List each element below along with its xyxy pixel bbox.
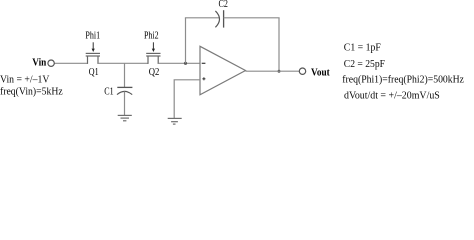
svg-text:C2 = 25pF: C2 = 25pF: [344, 59, 386, 70]
ground below C1: [118, 115, 132, 120]
wire feedback left vertical: [185, 18, 187, 64]
arrow Phi1 to gate of Q1: [92, 42, 94, 49]
transistor Q2: [146, 53, 160, 64]
wire non-inverting input: [174, 80, 200, 119]
terminal Vin circle: [48, 60, 54, 66]
svg-text:C1 = 1pF: C1 = 1pF: [344, 42, 381, 53]
svg-text:freq(Phi1)=freq(Phi2)=500kHz: freq(Phi1)=freq(Phi2)=500kHz: [342, 74, 464, 85]
wire C2 to right: [224, 17, 280, 19]
svg-text:Q1: Q1: [89, 67, 99, 78]
node A junction (feedback / inverting input): [184, 62, 187, 65]
wire Vin to Q1: [54, 62, 87, 64]
svg-text:Vout: Vout: [311, 68, 330, 79]
node B junction (feedback / output): [278, 70, 281, 73]
op-amp minus sign: [202, 62, 206, 64]
wire output: [246, 70, 300, 72]
transistor Q1: [86, 53, 100, 64]
svg-text:Vin: Vin: [32, 57, 46, 68]
svg-text:C1: C1: [104, 87, 113, 98]
terminal Vout circle: [299, 68, 305, 74]
svg-text:Phi2: Phi2: [144, 31, 159, 42]
svg-text:Q2: Q2: [149, 67, 160, 78]
wire top left to C2: [185, 17, 219, 19]
op-amp U1: [200, 46, 246, 95]
capacitor C1: [117, 86, 132, 88]
capacitor C2: [215, 11, 219, 27]
wire C1 tap: [124, 63, 126, 87]
wire feedback right vertical: [278, 18, 280, 71]
svg-text:freq(Vin)=5kHz: freq(Vin)=5kHz: [0, 86, 63, 97]
arrow Phi2 to gate of Q2: [152, 42, 154, 49]
svg-text:Vin = +/–1V: Vin = +/–1V: [0, 74, 50, 85]
wire Q1 to Q2: [98, 62, 148, 64]
svg-text:C2: C2: [219, 0, 228, 10]
svg-text:dVout/dt = +/–20mV/uS: dVout/dt = +/–20mV/uS: [344, 91, 440, 102]
wire Q2 to op-amp: [158, 62, 200, 64]
ground at op-amp + input: [168, 118, 182, 124]
wire C1 to ground: [124, 92, 126, 116]
op-amp plus sign: [202, 78, 205, 80]
svg-text:Phi1: Phi1: [85, 31, 100, 42]
